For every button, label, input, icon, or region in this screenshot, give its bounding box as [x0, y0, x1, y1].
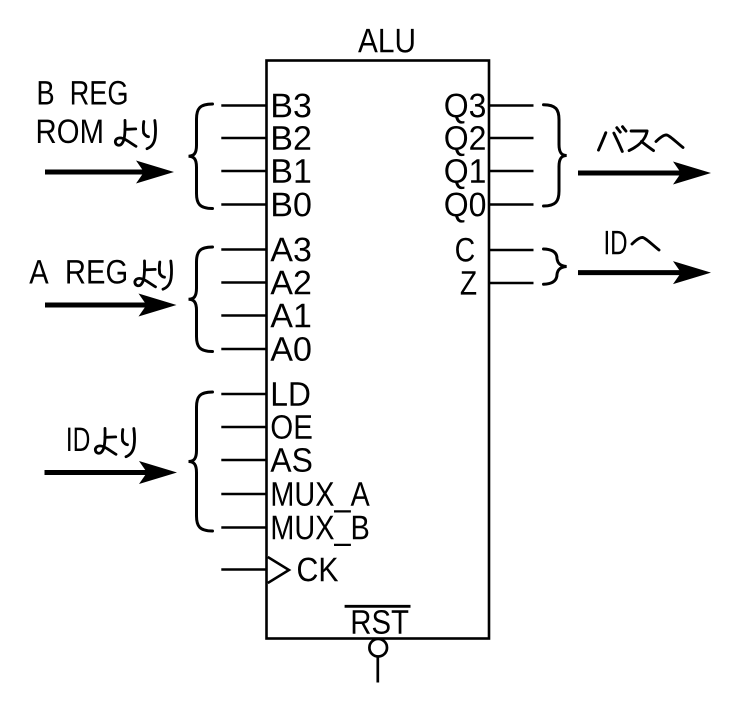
pin B2 wire	[221, 137, 266, 140]
pin Q2 wire	[489, 137, 534, 140]
pin MUX_A label	[273, 482, 370, 512]
pin B3 wire	[221, 104, 266, 107]
pin MUX_A wire	[221, 493, 266, 496]
pin OE wire	[221, 426, 266, 429]
pin MUX_B wire	[221, 526, 266, 529]
pin Q0 wire	[489, 203, 534, 206]
pin A1 label	[270, 304, 310, 327]
kana yo (ID yori)	[95, 428, 116, 454]
brace for LD..MUX_B control group	[189, 392, 213, 531]
pin Q3 wire	[489, 104, 534, 107]
pin CK label	[298, 558, 338, 582]
pin Q1 wire	[489, 170, 534, 173]
label "ID" (ID yori)	[68, 428, 89, 451]
pin MUX_B label	[273, 516, 369, 546]
pin Q3 label	[445, 94, 485, 124]
pin LD wire	[221, 393, 266, 396]
pin A3 label	[270, 238, 310, 262]
pin RST overline	[345, 605, 411, 608]
brace for Q3-Q0 output group	[544, 105, 567, 206]
kana yo (A REG yori)	[135, 261, 156, 287]
kana ri (A REG yori)	[159, 261, 171, 289]
brace for A3-A0 input group	[189, 247, 213, 352]
pin Q2 label	[445, 126, 485, 156]
pin A2 wire	[221, 281, 266, 284]
pin B0 wire	[221, 203, 266, 206]
pin RST label	[353, 610, 409, 634]
pin C label	[456, 238, 474, 262]
pin Z label	[461, 271, 476, 294]
pin A0 label	[270, 337, 310, 361]
IC body box U1 ALU	[267, 61, 490, 639]
pin RST wire stub	[376, 657, 379, 683]
pin A0 wire	[221, 348, 266, 351]
kana he (basu-e)	[656, 135, 683, 148]
pin CK clock triangle	[268, 557, 289, 583]
pin C wire	[489, 249, 534, 252]
pin B3 label	[273, 94, 310, 118]
arrow to bus (basu-e)	[578, 171, 682, 176]
pin A1 wire	[221, 314, 266, 317]
pin LD label	[273, 382, 310, 405]
pin B2 label	[273, 126, 310, 150]
pin A2 label	[270, 271, 310, 295]
brace for C,Z flag outputs	[544, 249, 567, 284]
pin OE label	[272, 415, 312, 439]
pin CK wire	[221, 568, 266, 571]
kana su (basu-e)	[629, 131, 653, 151]
arrow from B REG / ROM	[45, 170, 145, 175]
arrow from A REG	[45, 303, 148, 308]
kana he (ID-e)	[632, 237, 659, 250]
pin RST active-low bubble	[369, 639, 387, 657]
kana ba (basu-e)	[599, 127, 627, 152]
label "ID" (ID-e)	[606, 231, 627, 254]
pin AS wire	[221, 459, 266, 462]
pin B1 wire	[221, 170, 266, 173]
pin B1 label	[273, 159, 310, 182]
pin AS label	[270, 448, 311, 472]
kana yo (ROM yori)	[115, 120, 136, 146]
label "B REG"	[39, 81, 127, 105]
pin Z wire	[489, 282, 534, 285]
pin B0 label	[273, 193, 311, 217]
kana ri (ID yori)	[122, 429, 134, 457]
label "A REG"	[29, 260, 126, 284]
kana ri (ROM yori)	[143, 121, 155, 149]
title label ALU	[358, 29, 414, 53]
arrow to ID	[578, 270, 682, 275]
brace for B3-B0 input group	[189, 104, 213, 209]
label "ROM"	[38, 119, 102, 143]
pin A3 wire	[221, 248, 266, 251]
pin Q1 label	[445, 159, 485, 189]
arrow from ID	[45, 470, 149, 475]
pin Q0 label	[445, 193, 485, 223]
